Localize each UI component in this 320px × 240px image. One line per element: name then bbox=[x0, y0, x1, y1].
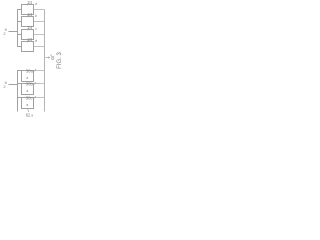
svg-text:c: c bbox=[35, 27, 37, 31]
svg-text:b: b bbox=[35, 14, 37, 18]
svg-text:30b: 30b bbox=[26, 82, 34, 87]
svg-text:a: a bbox=[31, 113, 33, 117]
svg-text:a: a bbox=[26, 89, 28, 93]
svg-text:30c: 30c bbox=[26, 96, 33, 101]
svg-text:8: 8 bbox=[51, 56, 54, 62]
svg-text:a: a bbox=[26, 76, 28, 80]
svg-text:a: a bbox=[35, 2, 37, 6]
svg-text:30a: 30a bbox=[26, 69, 34, 74]
svg-text:FIG. 3: FIG. 3 bbox=[57, 52, 63, 69]
svg-text:a: a bbox=[26, 103, 28, 107]
